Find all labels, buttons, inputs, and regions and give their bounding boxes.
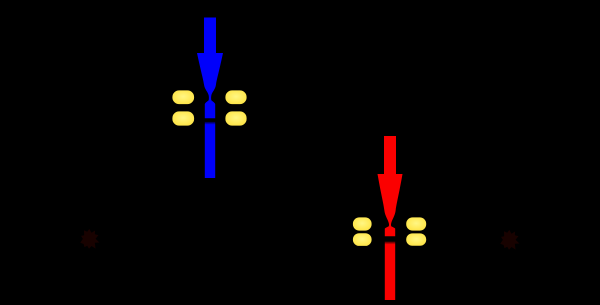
- gate pad lower-right (blue device): [225, 111, 247, 126]
- red channel bar below tunnel gap: [385, 242, 395, 301]
- gate pad upper-left (blue device): [172, 90, 195, 105]
- blue arrowhead tapering into point contact: [197, 53, 223, 118]
- gate pad lower-left (red device): [353, 233, 373, 247]
- gate pad upper-left (red device): [353, 217, 373, 231]
- faint starburst (right heat spot): [500, 230, 519, 250]
- gate pad upper-right (red device): [406, 217, 427, 231]
- gate pad lower-left (blue device): [172, 111, 195, 126]
- gate pad upper-right (blue device): [225, 90, 247, 105]
- red injector arrow (shaft): [384, 136, 396, 174]
- blue injector arrow (shaft): [204, 18, 216, 54]
- gate pad lower-right (red device): [406, 233, 427, 246]
- faint starburst (left heat spot): [80, 229, 99, 249]
- red arrowhead tapering into point contact: [378, 174, 403, 236]
- blue channel bar below tunnel gap: [205, 122, 215, 178]
